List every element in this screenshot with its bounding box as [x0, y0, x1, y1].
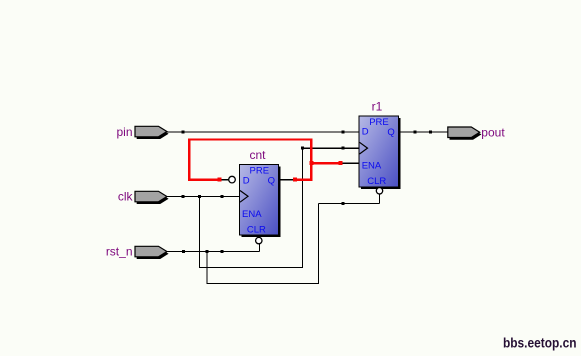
- wire red left vertical: [188, 138, 190, 181]
- node r1 clock stub dot: [342, 147, 345, 150]
- node r1.D stub dot: [342, 131, 345, 134]
- svg-text:Q: Q: [268, 175, 275, 186]
- wire clk branch bottom horizontal: [200, 267, 304, 269]
- label pout: [481, 125, 505, 139]
- svg-text:PRE: PRE: [250, 165, 270, 176]
- svg-text:ENA: ENA: [242, 209, 262, 220]
- port text cnt ENA: [242, 209, 262, 220]
- wire red bottom-left horizontal to cnt.D: [188, 178, 221, 180]
- wire pin to r1.D: [167, 131, 359, 133]
- node clk stub dot: [182, 195, 185, 198]
- watermark bbs.eetop.cn: [503, 336, 577, 351]
- svg-text:clk: clk: [118, 189, 134, 203]
- wire r1.ENA stub: [342, 162, 359, 164]
- port text r1 ENA: [362, 160, 382, 171]
- wire r1.Q to pout: [400, 131, 449, 133]
- pin symbol: output pout: [448, 127, 482, 140]
- node rst_n mid dot: [221, 250, 224, 253]
- clock triangle r1: [360, 142, 368, 154]
- node cnt clock stub dot: [221, 195, 224, 198]
- svg-text:bbs.eetop.cn: bbs.eetop.cn: [503, 336, 577, 351]
- wire rst_n branch to r1 CLR: [319, 203, 380, 205]
- bubble r1.CLR: [376, 188, 382, 194]
- wire red to r1.ENA: [310, 162, 342, 164]
- wire red top horizontal: [188, 138, 313, 140]
- port text cnt D: [243, 175, 250, 186]
- port text cnt PRE: [250, 165, 270, 176]
- label pin: [116, 125, 132, 139]
- wire clk branch down: [199, 197, 201, 269]
- wire rst_n branch down: [206, 252, 208, 285]
- svg-text:r1: r1: [372, 99, 383, 113]
- port text cnt CLR: [247, 225, 266, 236]
- wire rst_n to cnt CLR riser: [167, 251, 260, 253]
- wire red Q horizontal: [295, 178, 313, 180]
- wire clk branch to r1 clock: [303, 147, 360, 149]
- flip-flop cnt shadow: [241, 166, 280, 237]
- svg-text:cnt: cnt: [249, 148, 266, 162]
- port text r1 CLR: [367, 176, 386, 187]
- node pin stub dot: [182, 131, 185, 134]
- svg-text:rst_n: rst_n: [106, 244, 133, 258]
- svg-text:D: D: [243, 175, 250, 186]
- node r1 CLR stub dot: [342, 202, 345, 205]
- bubble cnt.CLR: [256, 237, 262, 243]
- wire rst_n branch bottom horizontal: [207, 283, 319, 285]
- label cnt: [249, 148, 266, 162]
- bubble cnt.D: [229, 176, 236, 183]
- wire up to cnt CLR bubble: [259, 244, 261, 252]
- pin symbol: input pin: [135, 126, 169, 139]
- flip-flop r1 body: [359, 116, 399, 187]
- clock triangle cnt: [240, 191, 248, 203]
- pin symbol: input rst_n: [135, 246, 169, 259]
- node red dot cnt.Q: [293, 178, 297, 182]
- svg-text:PRE: PRE: [369, 117, 389, 128]
- pin symbol: input clk: [135, 191, 169, 204]
- svg-text:pin: pin: [116, 125, 132, 139]
- label clk: [118, 189, 134, 203]
- svg-text:Q: Q: [387, 127, 394, 138]
- node clk junction dot: [198, 195, 201, 198]
- label rst_n: [106, 244, 133, 258]
- node rst_n junction dot: [206, 250, 209, 253]
- port text cnt Q: [268, 175, 275, 186]
- label r1: [372, 99, 383, 113]
- port text r1 D: [362, 127, 369, 138]
- svg-text:CLR: CLR: [367, 176, 386, 187]
- svg-text:CLR: CLR: [247, 225, 266, 236]
- svg-text:D: D: [362, 127, 369, 138]
- node red dot ENA end: [339, 161, 343, 165]
- node clk corner dot: [301, 147, 304, 150]
- node red junction ENA: [309, 161, 313, 165]
- node rst_n stub dot: [182, 250, 185, 253]
- node red dot cnt.D: [218, 178, 222, 182]
- node r1.Q stub dot: [414, 131, 417, 134]
- node pout stub dot: [429, 131, 432, 134]
- wire up to r1 CLR bubble: [379, 194, 381, 204]
- port text r1 PRE: [369, 117, 389, 128]
- wire red right vertical: [310, 139, 312, 181]
- wire rst_n branch up: [318, 204, 320, 284]
- flip-flop cnt body: [240, 165, 279, 236]
- flip-flop r1 shadow: [361, 118, 401, 189]
- svg-text:ENA: ENA: [362, 160, 382, 171]
- wire clk to cnt clock: [167, 196, 240, 198]
- svg-text:pout: pout: [481, 125, 505, 139]
- wire clk branch up to r1: [302, 148, 304, 268]
- wire cnt.D stub: [221, 179, 229, 181]
- port text r1 Q: [387, 127, 394, 138]
- wire cnt.Q stub: [280, 179, 296, 181]
